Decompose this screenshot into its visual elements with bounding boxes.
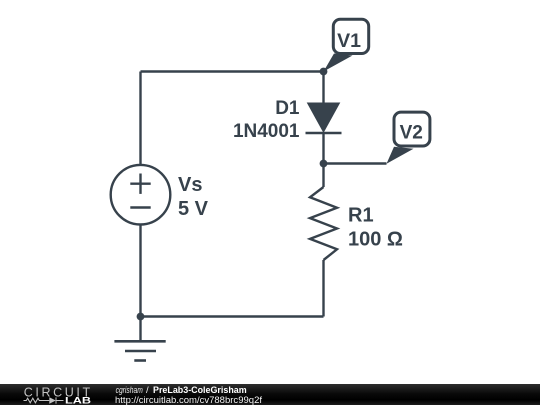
flag V1 box (333, 19, 368, 53)
ground bar 3 (134, 359, 146, 362)
wire left vertical upper (139, 72, 141, 165)
wire bottom horizontal (141, 315, 324, 317)
svg-text:100 Ω: 100 Ω (348, 229, 403, 251)
voltage source Vs (111, 165, 171, 225)
svg-text:1N4001: 1N4001 (233, 121, 300, 142)
plus sign horizontal (130, 182, 150, 184)
voltage source body circle (111, 165, 171, 225)
ground bar 1 (114, 340, 165, 343)
svg-text:http://circuitlab.com/cv788brc: http://circuitlab.com/cv788brc99q2f (115, 395, 262, 405)
wire left vertical lower (139, 225, 141, 317)
wire ground stub (139, 317, 141, 342)
flag V2 (387, 112, 430, 164)
plus sign vertical (139, 174, 141, 194)
svg-text:V2: V2 (400, 121, 423, 143)
flag V1 pointer wedge (324, 54, 353, 72)
diode D1 triangle (307, 103, 341, 134)
node A (V1 junction) (320, 68, 328, 76)
wire diode cathode to node (322, 133, 324, 164)
footer bar (0, 384, 540, 405)
logo diode triangle (49, 397, 56, 403)
resistor R1 (310, 187, 337, 260)
minus sign (130, 206, 150, 208)
svg-text:R1: R1 (348, 205, 374, 227)
flag V1 (324, 19, 369, 71)
svg-text:LAB: LAB (65, 396, 92, 405)
ground bar 2 (125, 350, 156, 353)
wire node to resistor (322, 164, 324, 188)
ground (114, 341, 165, 360)
wire node V2 horizontal (324, 162, 387, 164)
diode D1 cathode bar (306, 132, 342, 135)
flag V2 box (394, 112, 430, 146)
svg-text:V1: V1 (337, 30, 361, 52)
flag V2 pointer wedge (387, 147, 414, 164)
svg-text:Vs: Vs (178, 174, 202, 196)
logo schematic squiggle (24, 397, 64, 403)
wire resistor bottom (322, 260, 324, 317)
svg-text:5 V: 5 V (178, 198, 209, 220)
svg-text:D1: D1 (275, 98, 300, 119)
wire diode anode (322, 72, 324, 104)
node C (ground junction) (137, 313, 145, 321)
node B (V2 junction) (320, 160, 328, 168)
wire top horizontal (141, 70, 324, 72)
